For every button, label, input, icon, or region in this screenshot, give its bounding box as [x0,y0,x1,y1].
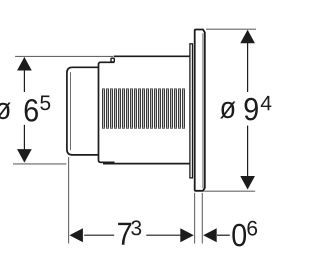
cap front-face contour line [70,72,72,150]
extension line: dia 65 bottom [13,163,66,165]
extension line: 06 right [201,193,203,244]
arrowhead down (dia 65) [17,149,32,163]
extension line: depth 73 left [68,157,70,244]
housing top edge [114,55,191,57]
dimension line dia 94 [247,31,249,93]
knurled grip band [102,88,185,128]
dimension line dia 65 [23,58,25,93]
dimension tail 06 [217,234,230,236]
extension line: dia 94 bottom [204,190,255,192]
flange plate [195,30,205,191]
extension line: dia 94 top [206,28,256,30]
inner sleeve [99,62,115,162]
arrowhead right (73) [180,228,194,242]
extension line: 73/06 shared [194,193,196,244]
label dia 9^4 [220,102,235,119]
housing bottom edge [103,163,191,165]
retaining clip on sleeve [111,58,114,62]
arrowhead left (73) [69,228,83,242]
extension line: dia 65 top [15,55,113,57]
button cap [67,67,99,155]
arrowhead up (dia 65) [17,57,32,71]
flange back collar strip [190,44,193,178]
flange plate inner face line [202,33,204,188]
arrowhead left (06) [203,228,217,242]
arrowhead down (dia 94) [240,176,255,190]
dimension line 73 [84,234,114,236]
label dia 6^5 [0,103,11,120]
label 0^6 [232,224,246,247]
label 7^3 [118,223,131,245]
arrowhead up (dia 94) [240,30,255,44]
